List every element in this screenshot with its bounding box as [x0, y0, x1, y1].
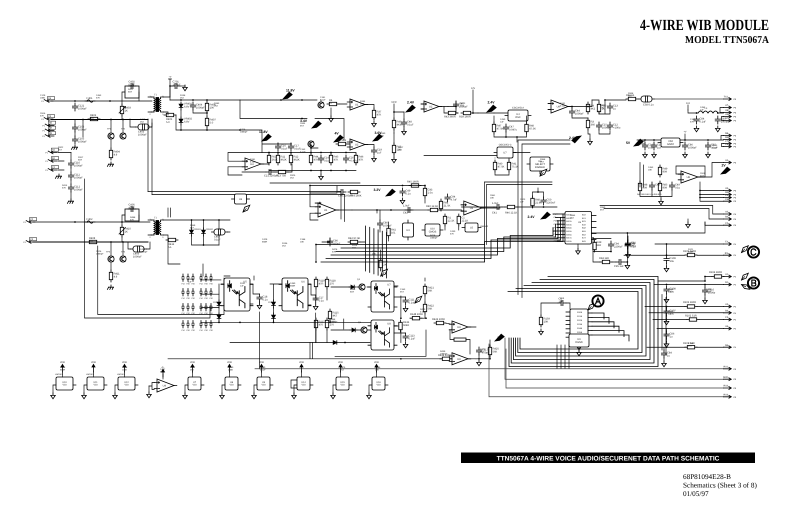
- svg-text:360: 360: [591, 123, 596, 126]
- svg-text:VDD: VDD: [338, 361, 343, 364]
- svg-text:1uF: 1uF: [377, 152, 382, 155]
- op-amp U14: [421, 101, 442, 112]
- ground: [55, 174, 61, 178]
- ic U26: [462, 223, 481, 232]
- svg-text:V10: V10: [261, 384, 266, 387]
- wire: [310, 185, 425, 187]
- resistor R462: [379, 258, 389, 270]
- svg-text:VDD: VDD: [190, 361, 195, 364]
- wire: [541, 303, 570, 315]
- flag 3.2V: [386, 189, 395, 196]
- wire pair to P5: [600, 206, 724, 220]
- svg-text:U2: U2: [470, 207, 474, 210]
- svg-text:C861: C861: [490, 194, 496, 197]
- flag pennant A: [588, 303, 595, 310]
- wire ic left pin stubs: [553, 213, 557, 215]
- svg-text:C819: C819: [700, 172, 706, 175]
- svg-text:VDD: VDD: [60, 361, 65, 364]
- resistor R471: [531, 196, 542, 208]
- op-amp U13: [242, 158, 264, 170]
- wire: [640, 190, 672, 199]
- op-amp U33: [154, 379, 177, 392]
- capacitor C127: [503, 124, 517, 132]
- resistor R467: [685, 305, 697, 308]
- svg-text:3.0: 3.0: [90, 117, 94, 120]
- capacitor switch loop: [125, 86, 139, 98]
- wire: [476, 340, 490, 359]
- wire: [440, 209, 462, 211]
- svg-text:P10: P10: [199, 297, 202, 300]
- ground: [403, 306, 408, 312]
- ground: [706, 152, 711, 158]
- ground: [329, 116, 334, 122]
- svg-text:P30: P30: [209, 297, 212, 300]
- connector pin P6-4: [724, 113, 737, 118]
- boxed capacitor C403: [136, 124, 152, 136]
- svg-text:5V: 5V: [498, 336, 503, 340]
- resistor R448: [597, 102, 607, 114]
- resistor R415: [314, 318, 325, 330]
- svg-text:C181: C181: [320, 96, 326, 99]
- connector pin P6-3: [724, 109, 737, 114]
- wire: [413, 209, 428, 211]
- resistor R433: [289, 153, 300, 165]
- resistor feedback R425: [454, 338, 466, 341]
- resistor R428: [327, 99, 339, 106]
- svg-text:U8: U8: [687, 176, 691, 179]
- wire: [424, 155, 497, 157]
- svg-text:SD5B: SD5B: [577, 331, 583, 334]
- svg-text:V10: V10: [376, 384, 381, 387]
- capacitor C136: [651, 142, 662, 150]
- wire long run to pin A: [255, 368, 724, 370]
- resistor R452: [658, 181, 668, 193]
- svg-text:C854: C854: [570, 214, 576, 217]
- svg-text:MX8A: MX8A: [566, 240, 572, 243]
- svg-text:RX3: RX3: [724, 393, 729, 396]
- capacitor C143: [405, 207, 413, 212]
- diode CR406: [350, 328, 357, 332]
- svg-text:R39 160R: R39 160R: [459, 116, 471, 119]
- svg-text:SD0B: SD0B: [577, 311, 583, 314]
- resistor R465: [685, 253, 697, 256]
- svg-text:1uF: 1uF: [188, 281, 192, 284]
- svg-text:P10: P10: [199, 312, 202, 315]
- svg-text:P9: P9: [554, 240, 556, 243]
- svg-text:C141: C141: [560, 102, 566, 105]
- svg-text:C430: C430: [450, 230, 456, 233]
- connector pin P2-1: [45, 148, 58, 154]
- connector pin P6-5: [724, 117, 737, 122]
- svg-text:C841: C841: [600, 104, 606, 107]
- connector pin P6-13: [724, 194, 737, 199]
- capacitor C150: [664, 256, 676, 264]
- ground: [626, 252, 631, 258]
- flag 2.4V c: [572, 136, 581, 143]
- op-amp U18: [548, 100, 571, 113]
- capacitor C141: [338, 189, 346, 194]
- svg-text:SD1B: SD1B: [577, 315, 583, 318]
- svg-text:U9: U9: [457, 326, 461, 329]
- flag 5V b: [634, 139, 643, 146]
- wire bus bundle S-route: [321, 214, 563, 262]
- svg-text:47K: 47K: [690, 121, 694, 124]
- wire: [219, 284, 282, 322]
- svg-text:1000pF: 1000pF: [74, 177, 83, 180]
- resistor R444: [493, 160, 504, 172]
- wire long run to pin B: [505, 338, 724, 379]
- svg-text:C460: C460: [188, 278, 194, 281]
- flag 11.8V: [283, 92, 292, 99]
- circled letter C: [748, 246, 759, 257]
- svg-text:47K: 47K: [380, 135, 384, 138]
- ground: [576, 249, 581, 255]
- svg-text:U15: U15: [340, 381, 345, 384]
- svg-text:0.1uF: 0.1uF: [300, 151, 306, 154]
- wire: [478, 112, 508, 114]
- svg-text:47.5K: 47.5K: [497, 127, 504, 130]
- svg-text:U10: U10: [62, 381, 67, 384]
- flag pennant: [381, 269, 388, 276]
- svg-text:0.1uF: 0.1uF: [420, 311, 426, 314]
- svg-text:R13 75K: R13 75K: [276, 175, 286, 178]
- svg-text:RX2: RX2: [724, 385, 729, 388]
- svg-text:1000uF: 1000uF: [383, 225, 392, 228]
- svg-text:51R: 51R: [628, 95, 632, 98]
- svg-text:P10: P10: [199, 283, 202, 286]
- svg-text:12.1K: 12.1K: [448, 219, 455, 222]
- capacitor C152: [702, 287, 715, 295]
- svg-text:P30: P30: [191, 297, 194, 300]
- svg-text:MX7A: MX7A: [566, 237, 572, 240]
- svg-text:0.1uF: 0.1uF: [260, 369, 266, 372]
- connector pin P6-20: [724, 365, 737, 370]
- connector pin P6-2: [724, 104, 737, 109]
- svg-text:4-WIRE WIB MODULE: 4-WIRE WIB MODULE: [640, 17, 769, 34]
- svg-text:100K: 100K: [40, 97, 46, 100]
- svg-text:0.1u: 0.1u: [263, 299, 269, 302]
- connector pin P2-3: [45, 166, 58, 172]
- svg-text:11.8V: 11.8V: [259, 130, 268, 134]
- svg-text:1uF: 1uF: [668, 313, 672, 316]
- ground: [403, 342, 408, 348]
- svg-text:1uF: 1uF: [500, 121, 504, 124]
- wire bus V2 drops: [365, 226, 367, 271]
- wire: [645, 306, 724, 308]
- wire ic long out: [592, 222, 706, 233]
- connector group P2881: [199, 289, 212, 301]
- svg-text:C463: C463: [96, 94, 102, 97]
- svg-text:4K2: 4K2: [591, 107, 596, 110]
- resistor R416: [325, 318, 336, 330]
- circled letter B: [748, 277, 759, 288]
- svg-text:R453: R453: [712, 144, 718, 147]
- ground: [664, 297, 669, 303]
- wire: [393, 133, 395, 157]
- svg-text:SD2B: SD2B: [577, 319, 583, 322]
- svg-text:C187: C187: [690, 118, 696, 121]
- op-amp U22: [315, 202, 321, 204]
- ground: [662, 361, 667, 367]
- wire: [201, 280, 371, 323]
- resistor R464: [600, 260, 612, 263]
- svg-text:4.9: 4.9: [114, 275, 118, 278]
- wire pair select loop: [485, 182, 552, 245]
- resistor R459: [457, 214, 468, 226]
- svg-text:V10: V10: [124, 384, 129, 387]
- connector pin P4-3: [724, 273, 737, 278]
- op-amp U9A: [449, 321, 471, 333]
- capacitor C157: [541, 197, 556, 205]
- connector pin P2-2: [45, 157, 58, 163]
- wire: [666, 244, 668, 266]
- svg-text:0.1uF: 0.1uF: [320, 99, 326, 102]
- svg-text:MODEL TTN5067A: MODEL TTN5067A: [685, 35, 769, 46]
- diode CR402: [202, 228, 206, 236]
- connector pin P4-6: [724, 309, 737, 314]
- svg-text:P20: P20: [186, 312, 189, 315]
- svg-text:5.0: 5.0: [210, 121, 214, 124]
- svg-text:RX: RX: [725, 252, 729, 255]
- svg-text:R104 360R: R104 360R: [709, 271, 722, 274]
- svg-text:100K: 100K: [640, 143, 646, 146]
- resistor R457: [387, 226, 397, 238]
- ground: [664, 342, 669, 348]
- connector pin P4-1: [724, 241, 737, 246]
- svg-text:47K: 47K: [130, 219, 134, 222]
- wire: [130, 119, 152, 127]
- connector pin P6-23: [724, 393, 737, 398]
- svg-text:0.1u: 0.1u: [406, 193, 412, 196]
- svg-text:R169: R169: [190, 224, 196, 227]
- capacitor C124: [266, 169, 274, 174]
- svg-text:75.1K: 75.1K: [512, 165, 519, 168]
- ic U16 oscillator2: [494, 147, 516, 158]
- svg-text:10K: 10K: [648, 169, 652, 172]
- ground: [643, 152, 648, 158]
- svg-text:V10: V10: [192, 384, 197, 387]
- svg-text:0.1uF: 0.1uF: [250, 161, 256, 164]
- wire ladder rails: [269, 153, 356, 171]
- capacitor C112: [68, 184, 83, 192]
- connector pin P6-11: [724, 187, 737, 192]
- connector pin P4-4: [724, 281, 737, 286]
- svg-text:MX6A: MX6A: [566, 233, 572, 236]
- resistor R443: [525, 122, 536, 134]
- flag 2.4V d: [541, 212, 550, 219]
- resistor R435: [329, 153, 339, 165]
- svg-text:1uF: 1uF: [657, 147, 662, 150]
- resistor R446: [586, 102, 595, 114]
- svg-text:U4: U4: [163, 385, 167, 388]
- svg-text:DGND: DGND: [575, 341, 583, 344]
- resistor R470: [505, 205, 517, 208]
- svg-text:3.2V: 3.2V: [374, 188, 382, 192]
- svg-text:0.1u: 0.1u: [324, 160, 330, 163]
- ground: [652, 152, 657, 158]
- svg-text:C453: C453: [700, 106, 706, 109]
- wire: [33, 221, 150, 223]
- transistor Q404: [308, 141, 314, 147]
- wire: [348, 144, 374, 147]
- svg-text:R46 12.1K: R46 12.1K: [505, 212, 518, 215]
- svg-text:68P81094E28-B: 68P81094E28-B: [683, 473, 731, 481]
- op-amp U12: [347, 139, 368, 150]
- svg-text:R138: R138: [180, 94, 186, 97]
- capacitor C120: [275, 143, 288, 151]
- svg-text:3.0: 3.0: [89, 240, 93, 243]
- wire: [667, 285, 706, 299]
- ic U28: [569, 334, 589, 350]
- svg-text:TTN5067A 4-WIRE VOICE AUDIO/SE: TTN5067A 4-WIRE VOICE AUDIO/SECURENET DA…: [497, 455, 720, 462]
- diode CR401: [190, 228, 194, 236]
- svg-text:C126: C126: [96, 250, 102, 253]
- svg-text:470: 470: [319, 323, 324, 326]
- boxed capacitor C407: [212, 229, 228, 241]
- ground: [703, 298, 708, 304]
- connector pin P6-8: [724, 140, 737, 145]
- connector pin P4-9: [724, 344, 737, 349]
- resistor R431: [267, 153, 278, 165]
- svg-text:C896: C896: [375, 366, 381, 369]
- wire: [128, 242, 150, 249]
- svg-text:CR401: CR401: [194, 228, 202, 231]
- resistor R419: [423, 302, 434, 314]
- svg-text:R44 160K: R44 160K: [350, 195, 362, 198]
- svg-text:1000pF: 1000pF: [196, 107, 205, 110]
- ground: [107, 162, 113, 166]
- wire: [316, 289, 344, 343]
- svg-text:47R: 47R: [319, 282, 324, 285]
- connector pin P1-8: [42, 121, 55, 127]
- resistor R407: [205, 116, 216, 128]
- svg-text:01/05/97: 01/05/97: [683, 490, 709, 498]
- svg-text:R128: R128: [122, 366, 128, 369]
- capacitor C153: [664, 308, 676, 316]
- svg-text:R199: R199: [706, 288, 712, 291]
- transistor Q401: [359, 284, 365, 290]
- capacitor C116: [403, 333, 416, 341]
- resistor R421: [440, 357, 452, 360]
- capacitor C404: [190, 102, 205, 110]
- connector group P2883: [181, 289, 194, 301]
- footer title bar: [461, 453, 755, 464]
- svg-text:12.1K: 12.1K: [461, 219, 468, 222]
- svg-text:1000pF: 1000pF: [78, 141, 87, 144]
- power +V node: [169, 79, 173, 86]
- svg-text:C484: C484: [630, 242, 636, 245]
- svg-text:R421: R421: [128, 88, 134, 91]
- flag 3.4V: [312, 121, 321, 128]
- connector pin P6-9: [724, 143, 737, 148]
- svg-text:VDD: VDD: [374, 361, 379, 364]
- svg-text:5.0: 5.0: [166, 121, 170, 124]
- transistor Q403: [318, 102, 324, 108]
- op-amp U9B: [449, 353, 471, 365]
- ground: [694, 126, 699, 132]
- wire long mid: [168, 330, 440, 359]
- wire: [121, 101, 123, 119]
- wire: [240, 99, 317, 101]
- svg-text:R181: R181: [250, 158, 256, 161]
- svg-text:ENABLE: ENABLE: [535, 166, 545, 169]
- svg-text:B2X: B2X: [582, 220, 586, 223]
- svg-text:U12: U12: [124, 381, 129, 384]
- capacitor C147: [608, 241, 623, 249]
- wire bus long riser: [316, 182, 485, 245]
- resistor R408: [87, 237, 99, 244]
- svg-text:10u: 10u: [670, 260, 675, 263]
- transformer T1: [150, 93, 165, 115]
- wire long run to pin D: [489, 344, 724, 397]
- ground: [716, 126, 721, 132]
- capacitor C135: [642, 142, 654, 150]
- svg-text:P5: P5: [554, 226, 556, 229]
- svg-text:Schematics (Sheet 3 of 8): Schematics (Sheet 3 of 8): [683, 482, 757, 490]
- wire: [377, 210, 389, 241]
- svg-text:56K: 56K: [428, 307, 433, 310]
- svg-text:U11: U11: [93, 381, 98, 384]
- svg-text:U14: U14: [301, 381, 306, 384]
- resistor R404: [109, 148, 120, 160]
- capacitor C103: [72, 136, 87, 144]
- svg-text:6.8V: 6.8V: [184, 121, 190, 124]
- connector pin P6-12: [724, 191, 737, 196]
- resistor R472: [410, 317, 422, 320]
- svg-text:C42: C42: [403, 212, 408, 215]
- svg-text:270: 270: [330, 282, 335, 285]
- flag 4V: [334, 135, 343, 142]
- svg-text:4.7: 4.7: [87, 221, 91, 224]
- svg-text:1000pF: 1000pF: [330, 321, 338, 324]
- svg-text:U2: U2: [355, 144, 359, 147]
- svg-text:51R: 51R: [160, 371, 164, 374]
- wire rail: [593, 252, 627, 263]
- connector pin P6-7: [724, 136, 737, 141]
- svg-text:C188: C188: [300, 238, 306, 241]
- op-amp U21: [315, 203, 339, 217]
- wire: [658, 277, 712, 282]
- potentiometer R403: [120, 104, 131, 116]
- resistor R461: [348, 240, 360, 243]
- connector group P2743: [181, 274, 194, 286]
- svg-text:1000pF: 1000pF: [430, 237, 438, 240]
- svg-text:B4X: B4X: [582, 227, 586, 230]
- svg-text:11.8V: 11.8V: [286, 89, 295, 93]
- ground: [625, 263, 630, 269]
- resistor R406: [205, 101, 216, 113]
- wire: [394, 104, 404, 118]
- svg-text:VDD: VDD: [227, 361, 232, 364]
- module U34: [190, 361, 195, 372]
- svg-text:2.4V: 2.4V: [407, 101, 415, 105]
- svg-text:P30: P30: [191, 283, 194, 286]
- transistor TP2: [120, 133, 126, 139]
- ground: [664, 319, 669, 325]
- zener VR402: [179, 117, 183, 125]
- svg-text:51R: 51R: [78, 159, 82, 162]
- wire: [330, 108, 332, 116]
- svg-text:1uF: 1uF: [559, 301, 564, 304]
- svg-text:B5X: B5X: [582, 230, 586, 233]
- wire: [75, 120, 83, 138]
- potentiometer R409: [120, 225, 131, 237]
- svg-text:R103 360R: R103 360R: [683, 301, 696, 304]
- ic box U29: [232, 194, 250, 204]
- loop wire: [593, 239, 611, 252]
- diode CR404: [217, 313, 221, 321]
- wire: [122, 215, 139, 222]
